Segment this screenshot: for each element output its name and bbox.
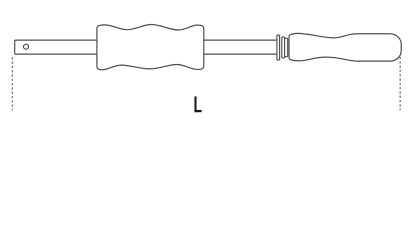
slide hammer weight bbox=[97, 25, 204, 70]
extension line right (dashed) bbox=[399, 57, 401, 110]
extension line left (dashed) bbox=[11, 57, 13, 110]
wire: right shaft bar bottom bbox=[204, 53, 277, 55]
ferrule collar step (right part) bbox=[284, 38, 287, 57]
ferrule ring 1 bbox=[277, 35, 280, 60]
wire: right shaft bar top bbox=[204, 39, 277, 41]
dimension label L bbox=[194, 96, 201, 112]
wire: left shaft bar with end cap bbox=[15, 40, 97, 54]
hole in shaft end bbox=[24, 44, 29, 49]
handle bbox=[289, 33, 401, 61]
ferrule collar (left part) bbox=[282, 37, 285, 58]
